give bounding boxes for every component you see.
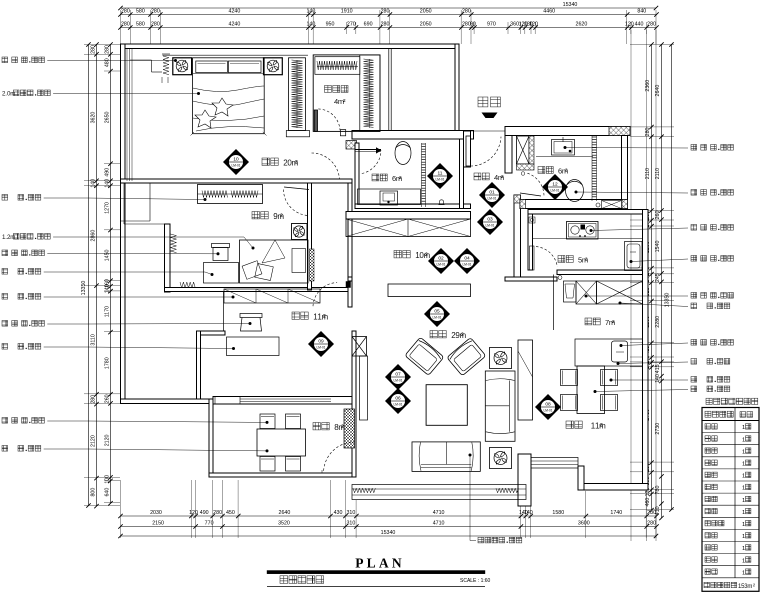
svg-text:1580: 1580: [552, 510, 564, 516]
leader: wash basin public bath: [564, 146, 567, 149]
window: living room south: [352, 485, 526, 500]
wall: left exterior: [121, 44, 126, 404]
label: master bath: [372, 174, 379, 181]
marker 12 public bath: [542, 174, 568, 200]
leader: desk study: [2, 344, 8, 350]
wall: west kitchen west edge: [553, 275, 555, 331]
extension lines: right: [630, 44, 674, 46]
svg-text:²: ²: [600, 422, 603, 431]
svg-text:²: ²: [295, 159, 298, 168]
svg-text:1: 1: [742, 437, 745, 443]
svg-text:²: ²: [341, 423, 344, 432]
marker 03 foyer: [477, 209, 503, 235]
svg-text:245: 245: [655, 273, 661, 282]
dimension chain: top row 2: [121, 27, 657, 29]
label: west kitchen: [585, 318, 592, 325]
dimension chain: top row 1: [121, 14, 657, 16]
svg-text:2120: 2120: [91, 435, 97, 447]
cloakroom hanger rail top: [315, 57, 360, 75]
extension lines: bottom: [120, 480, 122, 538]
extension lines: right long verticals: [630, 30, 632, 541]
wall: niche below bedroom: [123, 183, 125, 224]
door: bedroom2: [284, 187, 309, 190]
bed throw pillows (star shaped): [212, 98, 233, 116]
kitchen counter front edge: [533, 238, 643, 240]
svg-text:2110: 2110: [645, 168, 651, 179]
svg-text:2360: 2360: [645, 80, 651, 92]
leader: bedside cabinet: [2, 57, 8, 63]
kitchen corner post: [529, 217, 535, 223]
dimension chain: bottom row 2: [121, 526, 657, 528]
svg-text:280: 280: [647, 510, 656, 516]
svg-text:15340: 15340: [563, 2, 578, 8]
wall: study west jog: [197, 331, 226, 335]
dimension chain: left total 13350: [88, 45, 90, 506]
svg-text:270: 270: [347, 22, 356, 28]
leader: bar counter: [617, 362, 620, 365]
svg-text:²: ²: [753, 584, 755, 590]
svg-text:1450: 1450: [105, 249, 111, 261]
chair: bedroom2: [212, 244, 230, 248]
entry threshold: [466, 130, 505, 132]
svg-text:260: 260: [105, 394, 111, 403]
svg-text:770: 770: [205, 521, 214, 527]
svg-text:SCALE : 1:60: SCALE : 1:60: [460, 578, 491, 584]
svg-text:1170: 1170: [105, 306, 111, 317]
lock symbol master bath door: [439, 200, 443, 204]
svg-text:140: 140: [91, 179, 97, 188]
wall: suite corridor north band: [352, 131, 474, 140]
bedside niche outline: [130, 59, 152, 61]
svg-text:1: 1: [742, 449, 745, 455]
leader: tea table: [2, 446, 8, 452]
hatch: public bath south-west block: [520, 200, 526, 209]
label: public bath: [538, 167, 545, 174]
svg-text:780: 780: [655, 486, 661, 495]
fridge with X: [597, 281, 643, 304]
headboard bulkhead line: [163, 54, 309, 56]
svg-text:2120: 2120: [105, 434, 111, 446]
svg-text:2620: 2620: [576, 22, 588, 28]
cloakroom hanger rail right: [360, 55, 380, 131]
marker 01 foyer: [479, 182, 505, 208]
svg-text:1: 1: [742, 510, 745, 516]
svg-text:²: ²: [425, 251, 428, 260]
svg-text:280: 280: [105, 45, 111, 54]
svg-text:13350: 13350: [81, 281, 87, 296]
shower glass strip master bath: [421, 143, 423, 207]
svg-text:05: 05: [434, 309, 440, 315]
leader: appliance cabinet: [585, 295, 588, 298]
svg-text:04: 04: [464, 256, 470, 262]
nightstand 1 with lamp: [173, 58, 192, 75]
bar counter with sink: [575, 339, 643, 366]
leader: fridge: [619, 302, 622, 305]
svg-text:10: 10: [233, 157, 239, 163]
corner post public bath door: [521, 172, 525, 176]
wall: foyer corridor band north: [346, 212, 471, 220]
wall: master bath west: [355, 143, 359, 208]
svg-text:100: 100: [105, 475, 111, 484]
label: study: [292, 312, 299, 319]
bed: master double bed: [193, 58, 265, 134]
svg-text:1: 1: [742, 498, 745, 504]
hatch: top-right corner block: [609, 127, 630, 136]
svg-text:LM-01: LM-01: [436, 263, 445, 267]
svg-text:2110: 2110: [655, 168, 661, 179]
svg-text:120: 120: [529, 22, 538, 28]
svg-text:1910: 1910: [341, 9, 353, 15]
svg-text:2050: 2050: [420, 9, 432, 15]
svg-text:440: 440: [635, 22, 644, 28]
svg-text:280: 280: [91, 395, 97, 404]
svg-text:07: 07: [395, 372, 401, 378]
svg-text:LM-01: LM-01: [393, 379, 402, 383]
svg-text:690: 690: [364, 22, 373, 28]
sofa: living east two-seat vertical: [485, 371, 515, 441]
marker 09 study: [308, 331, 334, 357]
leader: gas stove: [590, 229, 593, 232]
wall: dining south exterior: [578, 484, 648, 491]
leader: bar sink: [620, 344, 623, 347]
armchair living 1: [405, 337, 444, 375]
svg-text:LM-01: LM-01: [550, 189, 559, 193]
svg-text:3600: 3600: [578, 521, 590, 527]
svg-text:LM-01: LM-01: [487, 197, 496, 201]
desk: study: [227, 337, 280, 356]
wall: hallway-living connector: [348, 277, 352, 281]
wall: foyer west: [464, 131, 471, 167]
marker 07 living west: [385, 364, 411, 390]
vanity: master bath: [358, 189, 421, 205]
table: function zones list: [706, 398, 712, 404]
table: total area row: [704, 582, 709, 587]
svg-text:LM-01: LM-01: [543, 409, 552, 413]
wall: kitchen north: [528, 210, 648, 215]
svg-text:2860: 2860: [91, 230, 97, 242]
svg-text:06: 06: [395, 396, 401, 402]
wall: study east lower: [352, 331, 356, 477]
svg-text:120: 120: [625, 22, 634, 28]
svg-text:08: 08: [545, 402, 551, 408]
hatch: public bath column strips: [529, 136, 534, 164]
svg-text:280: 280: [91, 45, 97, 54]
svg-text:480: 480: [105, 58, 111, 67]
svg-text:580: 580: [136, 9, 145, 15]
side table with plant top: [490, 348, 512, 369]
svg-text:120: 120: [189, 510, 198, 516]
svg-text:430: 430: [334, 510, 343, 516]
dimension chain: bottom total 15340: [121, 535, 657, 537]
door: master suite sliding: [356, 149, 382, 151]
wall: corridor south band: [505, 277, 557, 281]
sink: public bath: [552, 140, 575, 156]
dimension chain: right inner: [651, 45, 653, 511]
leader: dining chair: [610, 379, 613, 382]
svg-text:970: 970: [487, 22, 496, 28]
hatch: foyer east top block: [514, 195, 521, 203]
svg-text:²: ²: [323, 313, 326, 322]
svg-text:1: 1: [742, 486, 745, 492]
curtain lines master bedroom west: [126, 49, 128, 182]
svg-text:280: 280: [121, 9, 130, 15]
armchair living 2: [447, 338, 486, 376]
label: living room: [430, 331, 437, 338]
svg-text:1270: 1270: [105, 202, 111, 214]
bookshelf: study: [224, 289, 320, 303]
coffee table living: [426, 385, 467, 426]
svg-text:280: 280: [213, 510, 222, 516]
svg-text:4240: 4240: [229, 22, 241, 28]
wall: master bedroom south: [121, 179, 353, 183]
side table with plant bottom: [490, 448, 512, 469]
title: plan layout chinese: [280, 576, 288, 584]
wall: dining west step: [578, 466, 584, 490]
door: public bath: [520, 193, 541, 196]
svg-text:4460: 4460: [543, 9, 555, 15]
wardrobe: master (hanging clothes): [289, 58, 306, 131]
svg-text:2150: 2150: [152, 521, 164, 527]
column: public bath X-column: [517, 136, 530, 164]
desk: bedroom2: [204, 263, 239, 284]
svg-text:LM-01: LM-01: [316, 346, 325, 350]
svg-text:m: m: [747, 584, 752, 590]
dimension chain: bottom row 1: [121, 515, 657, 517]
appliance cabinet with X: [576, 281, 597, 304]
svg-text:11: 11: [438, 171, 443, 177]
svg-text:1: 1: [742, 522, 745, 528]
leader: double sofa: [469, 454, 472, 457]
svg-text:1: 1: [742, 546, 745, 552]
console table corridor: [388, 284, 471, 297]
marker 11 master bath: [427, 163, 453, 189]
label: kitchen: [558, 256, 565, 263]
svg-text:PLAN: PLAN: [355, 556, 405, 571]
wall: hallway west (bedroom2 east): [308, 183, 312, 290]
svg-text:1: 1: [742, 462, 745, 468]
svg-text:310: 310: [346, 510, 355, 516]
svg-text:840: 840: [637, 9, 646, 15]
dimension chain: left outer: [96, 45, 98, 507]
toilet: master bath: [395, 142, 411, 165]
wall: kitchen south: [557, 270, 648, 275]
window: dining west low band: [531, 458, 578, 469]
svg-text:4710: 4710: [433, 510, 445, 516]
svg-text:950: 950: [326, 22, 335, 28]
cabinet: living west tall cabinet: [360, 356, 368, 420]
marker 06 living west: [385, 388, 411, 414]
svg-text:2640: 2640: [279, 510, 291, 516]
svg-text:2050: 2050: [420, 22, 432, 28]
svg-text:²: ²: [461, 331, 464, 340]
svg-text:280: 280: [151, 9, 160, 15]
door: study: [313, 283, 337, 307]
wall: public bath north exterior: [505, 127, 630, 136]
svg-text:450: 450: [226, 510, 235, 516]
svg-text:280: 280: [645, 127, 651, 136]
door: master bedroom: [312, 153, 340, 180]
wall: top exterior: [121, 44, 460, 49]
leader: bookcase study: [2, 294, 8, 300]
label: corridor: [394, 251, 401, 258]
svg-text:LM-01: LM-01: [231, 164, 240, 168]
svg-text:m: m: [10, 234, 15, 241]
wall: master bath east: [460, 139, 464, 209]
svg-text:4710: 4710: [433, 521, 445, 527]
svg-text:490: 490: [105, 168, 111, 177]
svg-text:490: 490: [200, 510, 209, 516]
svg-text:LM-01: LM-01: [432, 316, 441, 320]
svg-text:460: 460: [645, 498, 651, 507]
wall: study west upper: [223, 292, 225, 335]
cloakroom box: [313, 55, 380, 131]
label: master bedroom: [262, 158, 269, 165]
svg-text:280: 280: [381, 9, 390, 15]
door: cloakroom: [314, 110, 317, 131]
hatch: wall block master bath NW: [346, 141, 357, 150]
svg-text:LM-01: LM-01: [462, 263, 471, 267]
label: bedroom2: [252, 212, 259, 219]
label: cloakroom: [325, 86, 332, 93]
label: foyer: [474, 173, 481, 180]
leader: wardrobe: [2, 195, 8, 201]
leader: single chair tea room: [2, 418, 8, 424]
svg-text:3620: 3620: [91, 112, 97, 124]
svg-text:1780: 1780: [105, 357, 111, 369]
corner circle west kitchen: [558, 276, 562, 280]
svg-text:1740: 1740: [610, 510, 622, 516]
leader: toilet public bath: [575, 191, 578, 194]
svg-text:140: 140: [105, 284, 111, 293]
wall: tea room west exterior: [209, 399, 213, 477]
dining chairs: [561, 370, 578, 386]
leader: single chair bedroom2: [2, 250, 8, 256]
svg-text:3110: 3110: [91, 334, 97, 345]
black post: study NE corner: [346, 282, 351, 288]
svg-text:140: 140: [306, 22, 315, 28]
svg-text:280: 280: [462, 9, 471, 15]
svg-text:LM-01: LM-01: [485, 224, 494, 228]
appliance unit west kitchen: [564, 281, 577, 302]
svg-text:310: 310: [346, 521, 355, 527]
svg-text:²: ²: [280, 212, 283, 221]
wall: bedroom2 west: [165, 224, 171, 292]
wall: bedroom2/study divider: [165, 288, 353, 292]
wall: public bath west: [505, 136, 512, 174]
svg-text:140: 140: [306, 9, 315, 15]
svg-text:LM-01: LM-01: [393, 403, 402, 407]
label: entrance: [478, 97, 488, 107]
chair: study: [240, 314, 262, 318]
wall: hallway east / study east: [348, 183, 352, 307]
wall: tea room south exterior: [209, 473, 352, 477]
radiator bedroom2 west: [171, 234, 177, 253]
wall: public bath south: [520, 200, 628, 209]
wall: kitchen/dining east exterior: [643, 210, 649, 491]
window: tea room north: [213, 397, 352, 405]
wall: tea room east edge: [355, 404, 357, 448]
marker 05 living north: [424, 301, 450, 327]
door: tea room: [324, 442, 355, 471]
marker 02 corridor: [428, 248, 454, 274]
tea table: [257, 429, 306, 456]
window sill hatch right: [496, 488, 518, 493]
extension lines: top: [120, 10, 122, 44]
dining table: [577, 366, 605, 414]
toilet: public bath: [566, 180, 584, 202]
svg-text:1: 1: [742, 558, 745, 564]
svg-text:1: 1: [742, 474, 745, 480]
svg-text:01: 01: [489, 190, 495, 196]
leader: dining table: [594, 390, 597, 393]
wardrobe: bedroom2: [198, 185, 263, 204]
leader: single chair study: [2, 321, 8, 327]
wall: cloakroom east exterior: [388, 49, 390, 131]
svg-text:3520: 3520: [278, 521, 290, 527]
hatch: tea room chimney block: [344, 409, 355, 448]
storage cabinets along corridor: [346, 219, 471, 237]
svg-text:09: 09: [318, 339, 324, 345]
svg-text:140: 140: [655, 374, 661, 383]
svg-text:280: 280: [647, 521, 656, 527]
svg-text:280: 280: [381, 22, 390, 28]
label: tea room: [313, 423, 320, 430]
svg-text:LM-01: LM-01: [435, 178, 444, 182]
hatch: bedroom2 east strip: [310, 249, 315, 281]
sofa: living south two-seat: [412, 442, 480, 472]
svg-text:4240: 4240: [229, 9, 241, 15]
marker 08 dining: [535, 394, 561, 420]
svg-text:260: 260: [655, 211, 661, 220]
wall: bottom-left exterior: [121, 399, 214, 404]
svg-text:03: 03: [487, 217, 493, 223]
svg-text:140: 140: [105, 179, 111, 188]
window sill hatch left: [353, 488, 375, 493]
svg-text:2640: 2640: [655, 85, 661, 97]
dimension chain: right outer: [661, 45, 663, 519]
wall: living SE pillar: [518, 454, 531, 506]
svg-text:12: 12: [552, 182, 558, 188]
svg-text:2730: 2730: [655, 423, 661, 435]
marker 04 corridor: [454, 248, 480, 274]
svg-text:800: 800: [91, 488, 97, 497]
svg-text:15340: 15340: [381, 530, 396, 536]
dimension chain: left inner: [110, 45, 112, 504]
svg-text:1540: 1540: [655, 241, 661, 253]
tea chairs: [260, 414, 275, 429]
extension lines: left: [84, 44, 120, 46]
nightstand 2 with lamp: [264, 58, 283, 75]
svg-text:2030: 2030: [150, 510, 162, 516]
svg-text:2280: 2280: [655, 316, 661, 328]
svg-text:280: 280: [121, 22, 130, 28]
dimension chain: right total 13350: [671, 45, 673, 510]
wall: public bath east exterior: [622, 136, 628, 209]
svg-text:580: 580: [136, 22, 145, 28]
fixture: public bath under-window cabinet with X: [602, 201, 622, 209]
bed corner feet: [191, 132, 195, 136]
bed: bedroom2 single: [240, 240, 309, 283]
door: entry leaf and arc: [466, 136, 471, 166]
svg-text:1: 1: [742, 425, 745, 431]
label: dining room: [566, 421, 573, 428]
svg-text:640: 640: [105, 488, 111, 497]
TV wall: living east partition: [518, 340, 533, 420]
column: study SE X-column: [352, 337, 367, 357]
leader: kitchen sink: [630, 260, 633, 263]
shower partition public bath: [591, 136, 593, 201]
dimension chain: top total 15340: [121, 7, 657, 9]
